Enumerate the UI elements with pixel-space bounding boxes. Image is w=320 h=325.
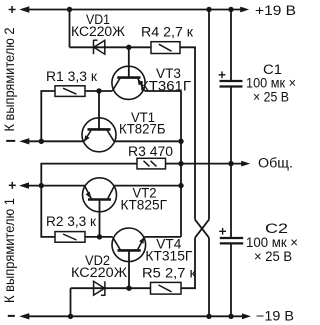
junction node VT1 collector on spine — [178, 139, 183, 144]
polarity plus sign rectifier 2 — [9, 6, 16, 13]
arrow common output — [241, 161, 250, 167]
wire VD1 branch vertical from top rail — [69, 10, 71, 48]
junction node top rail / VD1 — [67, 7, 72, 12]
wire below crossing to bottom rail — [208, 238, 210, 317]
svg-text:100 мк ×: 100 мк × — [246, 235, 298, 250]
svg-text:R1 3,3 к: R1 3,3 к — [46, 69, 97, 84]
svg-text:КС220Ж: КС220Ж — [71, 265, 128, 280]
svg-text:КТ827Б: КТ827Б — [119, 122, 166, 137]
resistor R4 — [151, 42, 180, 54]
polarity plus sign C2 — [219, 228, 226, 235]
wire VT1 emitter to rectifier-2 minus — [26, 140, 84, 142]
wire bottom rail -19V — [26, 315, 243, 317]
capacitor C1 wire upper — [230, 10, 232, 81]
svg-text:R4 2,7 к: R4 2,7 к — [141, 25, 193, 40]
arrow to rectifier 1 minus — [19, 313, 29, 319]
junction node bottom rail VD2 — [68, 314, 73, 319]
svg-text:× 25 В: × 25 В — [254, 249, 292, 264]
arrow to rectifier 1 plus — [19, 182, 29, 188]
transistor VT2 (PNP) — [83, 178, 117, 212]
transistor VT3 (PNP) — [112, 66, 145, 99]
svg-text:+19 В: +19 В — [255, 3, 296, 18]
wire below crossing to R5 corner — [181, 238, 195, 289]
wire VT1 base from node B — [98, 91, 100, 129]
svg-text:КТ361Г: КТ361Г — [140, 79, 192, 94]
wire common rail (Obshch) — [181, 163, 242, 165]
wire VT2 collector to spine — [115, 185, 182, 187]
svg-text:КС220Ж: КС220Ж — [71, 24, 126, 39]
junction node C1 C2 common — [228, 161, 233, 166]
junction node C (R2/VT4 collector/VT2 base) — [97, 234, 102, 239]
arrow to rectifier 2 plus — [19, 6, 29, 12]
wire R3 left to rectifier-1 plus rail — [41, 164, 137, 186]
transistor VT1 (NPN) — [82, 118, 116, 152]
resistor R1 — [55, 86, 85, 97]
wire top rail +19V — [26, 9, 241, 11]
wire VD2 left down to bottom rail — [70, 288, 72, 316]
wire R3 right to spine — [166, 163, 182, 165]
junction node R1 corner on minus wire — [39, 139, 44, 144]
svg-text:100 мк ×: 100 мк × — [246, 76, 296, 91]
wire VT2 base down to node C — [99, 200, 101, 237]
junction node top rail C1 — [228, 7, 233, 12]
resistor R3 — [137, 158, 166, 169]
capacitor C2 wire lower — [230, 244, 232, 317]
svg-text:R3 470: R3 470 — [128, 144, 173, 159]
wire common spine vertical x181 — [180, 91, 182, 237]
arrow -19V output — [242, 313, 251, 319]
junction node bottom rail C2 — [228, 314, 233, 319]
wire VD1 anode-cathode horizontal — [70, 46, 152, 48]
svg-text:К выпрямителю 1: К выпрямителю 1 — [2, 198, 17, 303]
polarity plus sign C1 — [219, 71, 226, 78]
diode VD2 (zener, cathode right) — [94, 281, 105, 295]
svg-text:R5 2,7 к: R5 2,7 к — [142, 266, 196, 281]
capacitor C1 wire lower — [230, 87, 232, 164]
wire VT3 emitter to common spine — [145, 90, 181, 92]
junction node B (R1/VT3 collector/VT1 base) — [96, 88, 101, 93]
diode VD1 (zener, cathode left) — [94, 40, 105, 54]
svg-text:R2 3,3 к: R2 3,3 к — [46, 214, 96, 229]
wire VT3 collector to node B — [85, 90, 112, 92]
wire top rail drop at x209 — [208, 10, 210, 220]
svg-text:× 25 В: × 25 В — [253, 90, 289, 105]
svg-text:Общ.: Общ. — [258, 156, 293, 171]
polarity plus sign rectifier 1 — [9, 182, 16, 189]
wire crossing X left-to-right — [195, 220, 209, 238]
svg-text:КТ315Г: КТ315Г — [145, 249, 193, 264]
wire VT4 base down to node D — [128, 250, 130, 288]
capacitor C2 wire upper — [230, 164, 232, 238]
wire VD2 branch horizontal — [71, 287, 151, 289]
wire crossing X right-to-left — [195, 220, 209, 238]
svg-text:КТ825Г: КТ825Г — [121, 198, 168, 213]
wire VT3 base from node A — [128, 47, 130, 77]
wire R2 left to corner — [41, 186, 55, 237]
junction node D (VD2/R5/VT4 base) — [126, 286, 131, 291]
wire R1 left to corner — [41, 91, 55, 141]
svg-text:К выпрямителю 2: К выпрямителю 2 — [2, 28, 17, 132]
junction node top rail x209 — [206, 7, 211, 12]
junction node R3 right on spine — [178, 161, 183, 166]
capacitor C1 plates — [220, 81, 243, 87]
junction node A (VD1/R4/VT3 base) — [126, 45, 131, 50]
junction node bottom rail x209 — [206, 314, 211, 319]
svg-text:C2: C2 — [265, 221, 288, 236]
resistor R2 — [55, 232, 85, 243]
wire VT4 emitter to spine — [145, 236, 182, 238]
wire R4 right to vertical line — [180, 47, 195, 219]
junction node plus rail corner — [39, 183, 44, 188]
junction node VT2 collector on spine — [178, 183, 183, 188]
svg-text:−19 В: −19 В — [256, 309, 294, 324]
capacitor C2 plates — [220, 238, 243, 243]
wire VT2 emitter to rectifier-1 plus — [26, 185, 85, 187]
wire R2 right to VT4 collector — [85, 236, 113, 238]
transistor VT4 (NPN) — [112, 228, 146, 262]
arrow +19V output — [240, 7, 249, 13]
arrow to rectifier 2 minus — [19, 138, 29, 144]
resistor R5 — [151, 282, 182, 294]
wire VT1 collector to spine — [114, 140, 181, 142]
polarity minus sign rectifier 1 — [8, 315, 15, 317]
polarity minus sign rectifier 2 — [6, 140, 15, 142]
